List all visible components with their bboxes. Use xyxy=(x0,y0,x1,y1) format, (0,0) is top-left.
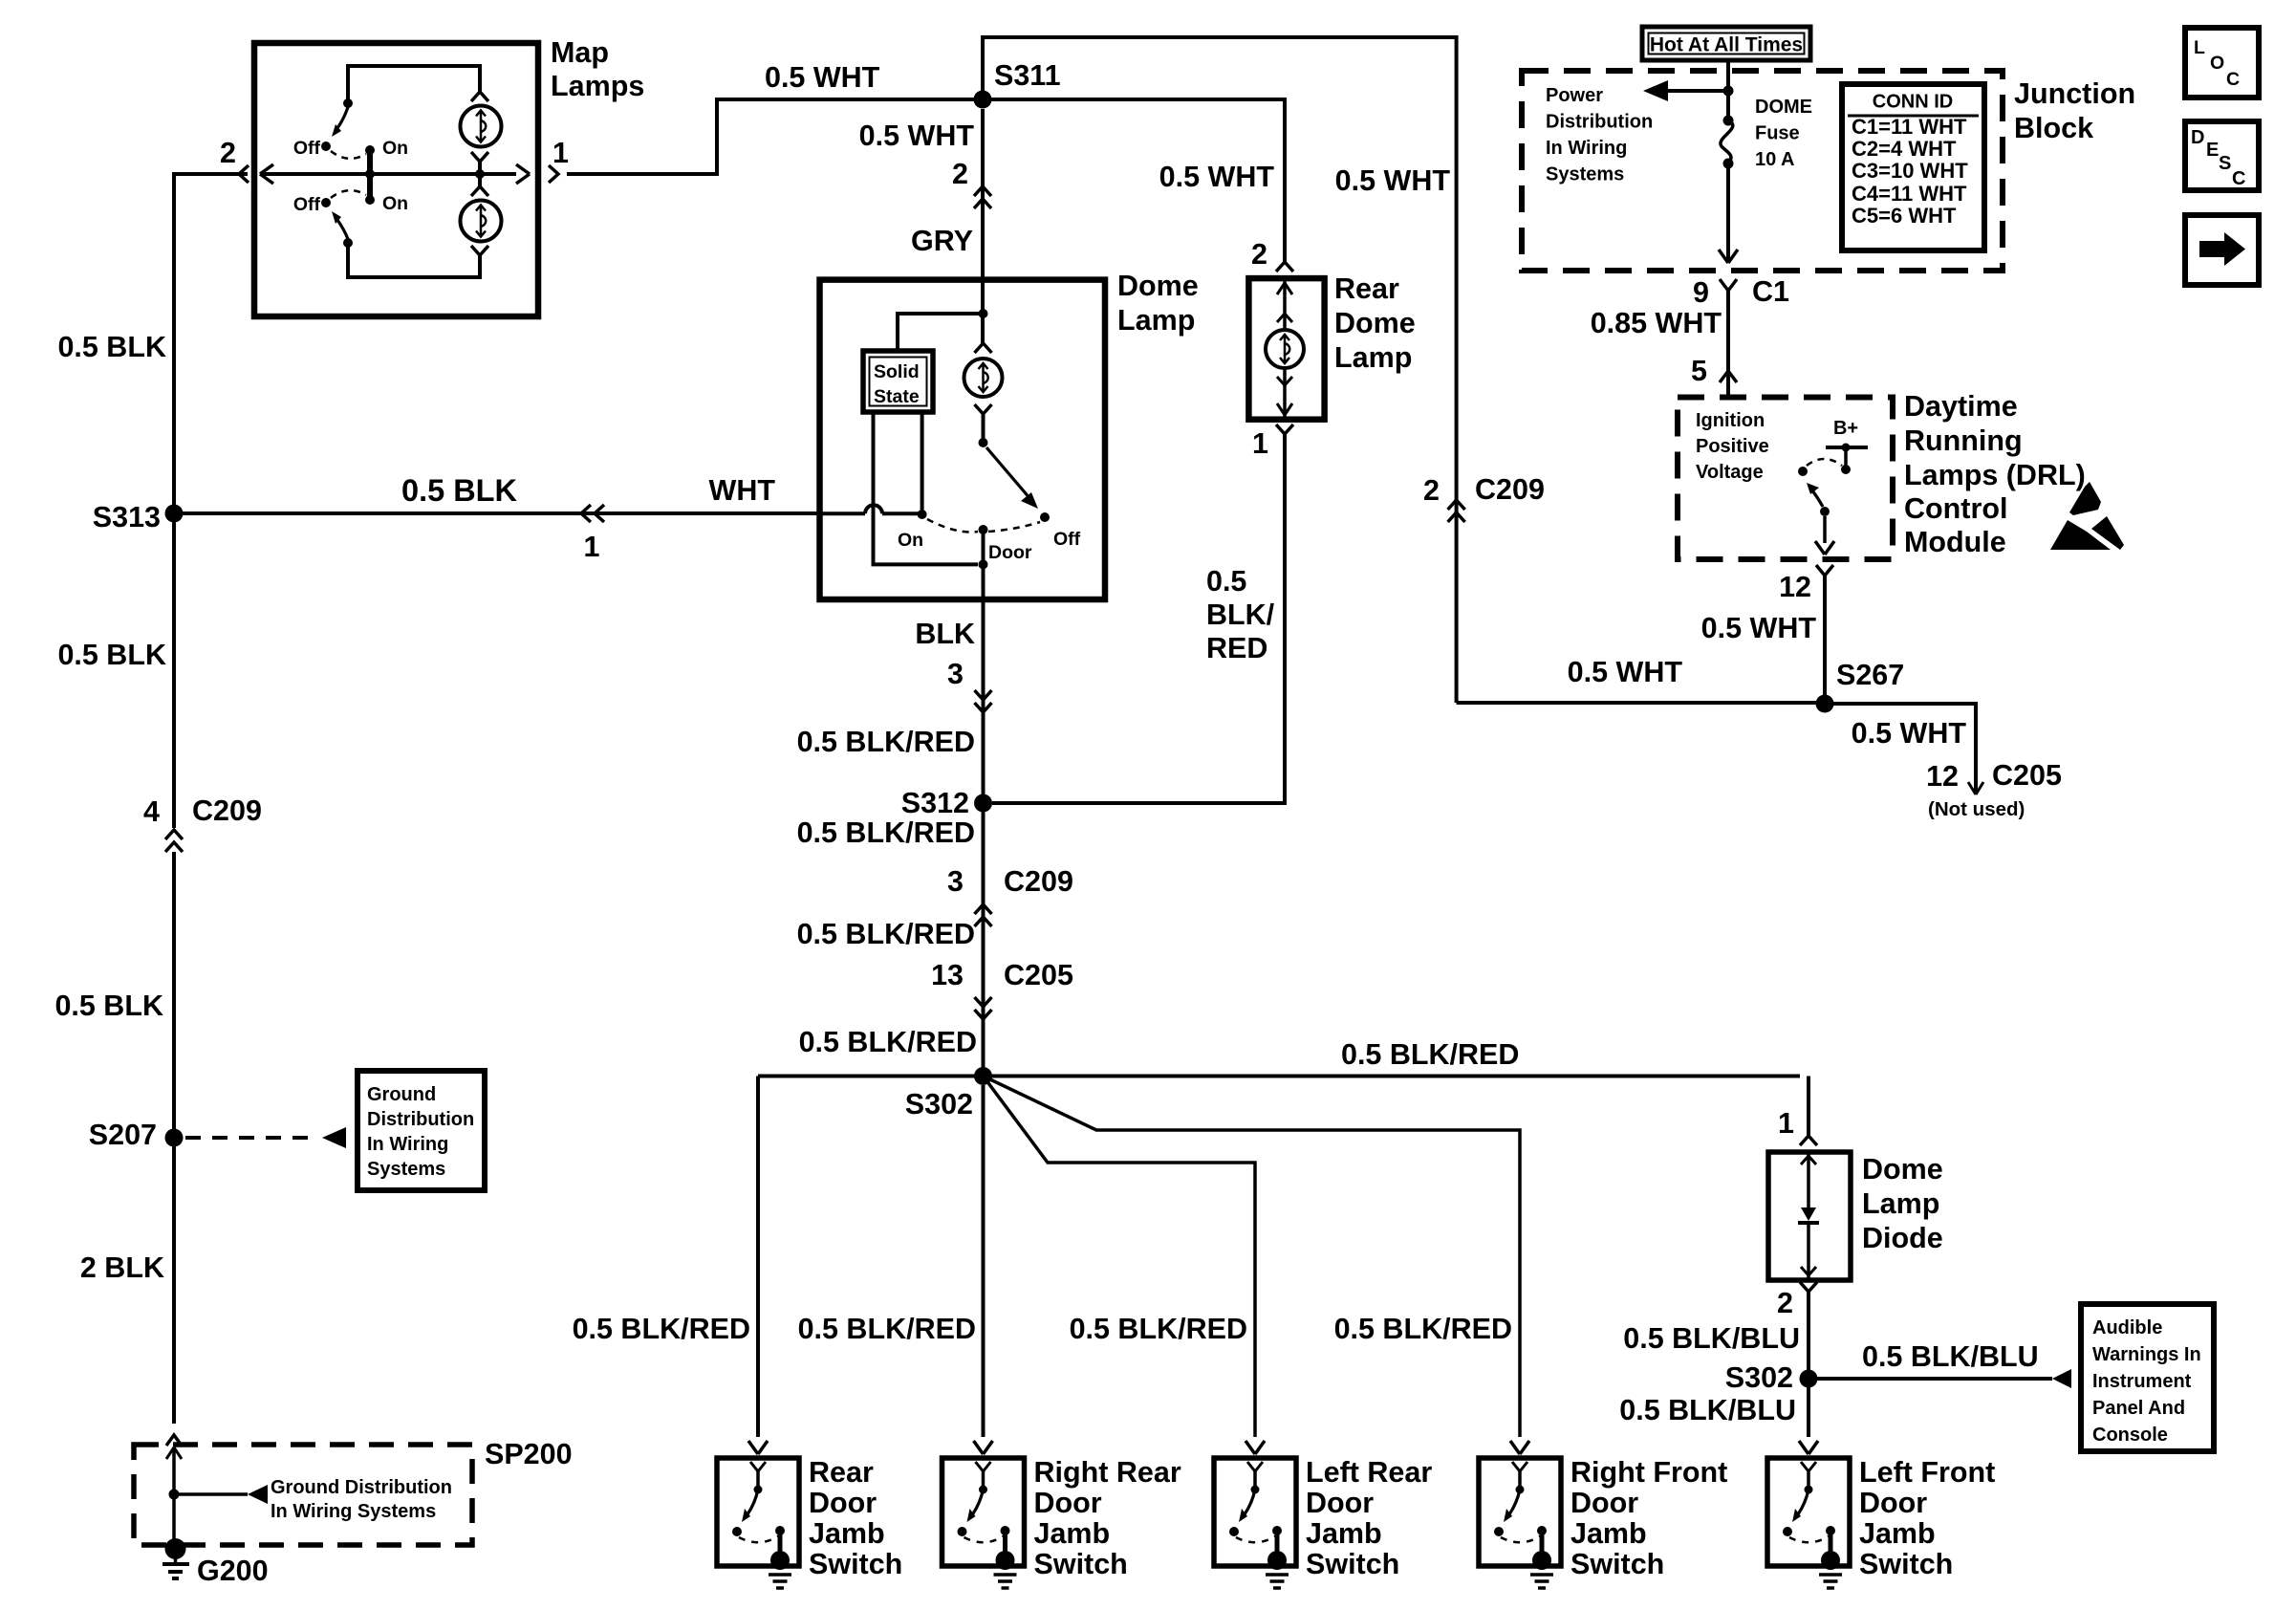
svg-text:C209: C209 xyxy=(192,794,262,827)
svg-text:Lamp: Lamp xyxy=(1862,1187,1939,1220)
svg-text:S312: S312 xyxy=(901,787,969,819)
label Junction Block xyxy=(2014,77,2135,144)
svg-text:Door: Door xyxy=(809,1487,877,1519)
hot at all times box xyxy=(1642,27,1810,60)
label Dome Lamp xyxy=(1117,270,1199,337)
DESC reference box xyxy=(2185,121,2259,190)
branch S302 to right front switch xyxy=(984,1077,1521,1438)
svg-text:C3=10 WHT: C3=10 WHT xyxy=(1852,159,1968,183)
svg-text:Ground: Ground xyxy=(367,1084,436,1105)
node S312 xyxy=(974,794,992,813)
node S207 xyxy=(165,1129,184,1147)
svg-text:0.5 BLK/BLU: 0.5 BLK/BLU xyxy=(1623,1322,1800,1355)
dome lamp switch lever xyxy=(979,438,1039,509)
svg-text:On: On xyxy=(382,138,408,159)
svg-text:RED: RED xyxy=(1206,632,1267,664)
svg-text:S313: S313 xyxy=(93,501,161,533)
svg-text:Jamb: Jamb xyxy=(1306,1517,1382,1550)
svg-text:GRY: GRY xyxy=(911,225,973,257)
svg-text:Switch: Switch xyxy=(1306,1548,1399,1580)
svg-text:0.5 BLK/BLU: 0.5 BLK/BLU xyxy=(1619,1394,1796,1426)
label Ground Distribution In Wiring Systems (SP200) xyxy=(271,1477,452,1522)
map lamps upper lamp lower chevron xyxy=(471,152,488,162)
wire rear dome pin1 down to S312 xyxy=(992,434,1285,803)
map lamps lamp junction wire xyxy=(478,162,482,186)
svg-text:Dome: Dome xyxy=(1117,270,1199,302)
wire horizontal into S267 xyxy=(1457,701,1825,705)
label Solid State xyxy=(874,361,920,407)
svg-text:Switch: Switch xyxy=(1034,1548,1128,1580)
svg-text:Audible: Audible xyxy=(2092,1317,2162,1338)
conn id rows xyxy=(1852,115,1968,228)
wire segment into rear xyxy=(748,1441,758,1454)
diode pin 1 chevron xyxy=(1800,1136,1817,1145)
svg-text:Switch: Switch xyxy=(1859,1548,1953,1580)
inline connector chevrons on dome lamp wire xyxy=(974,186,991,196)
svg-text:C205: C205 xyxy=(1992,759,2062,792)
svg-text:0.5 WHT: 0.5 WHT xyxy=(1568,656,1683,688)
svg-text:C: C xyxy=(2226,69,2240,90)
svg-text:4: 4 xyxy=(143,795,160,828)
rear dome pin 2 chevron xyxy=(1276,262,1293,272)
svg-text:Door: Door xyxy=(1306,1487,1374,1519)
rear dome pin 1 chevron xyxy=(1276,424,1293,434)
svg-text:0.5 BLK/RED: 0.5 BLK/RED xyxy=(1070,1313,1247,1345)
svg-text:2: 2 xyxy=(1777,1287,1793,1319)
WHT wire into On contact with hump xyxy=(820,505,922,513)
door jamb switch right rear xyxy=(942,1458,1025,1588)
wire C209 to S207 xyxy=(172,852,176,1129)
svg-text:CONN ID: CONN ID xyxy=(1873,92,1953,113)
svg-text:Jamb: Jamb xyxy=(1859,1517,1936,1550)
svg-text:State: State xyxy=(874,386,920,407)
svg-text:Left Rear: Left Rear xyxy=(1306,1456,1432,1489)
ground distribution in wiring systems box xyxy=(357,1071,485,1190)
svg-text:D: D xyxy=(2191,127,2204,148)
svg-text:C209: C209 xyxy=(1475,473,1545,506)
audible warnings box xyxy=(2081,1304,2214,1451)
svg-text:0.5 BLK/RED: 0.5 BLK/RED xyxy=(797,918,975,950)
map lamps upper Off contact xyxy=(321,141,331,151)
svg-text:Ignition: Ignition xyxy=(1696,410,1765,431)
svg-text:O: O xyxy=(2210,53,2224,74)
dome lamp switch common wire xyxy=(982,414,986,443)
svg-text:Rear: Rear xyxy=(809,1456,874,1489)
svg-text:Lamp: Lamp xyxy=(1334,341,1412,374)
solid state left leg xyxy=(874,412,979,564)
DRL pin 12 chevron xyxy=(1816,565,1833,576)
dome lamp dashed throw arc xyxy=(927,519,978,532)
svg-text:C: C xyxy=(2232,168,2245,189)
node S267 xyxy=(1816,695,1834,713)
svg-text:Positive: Positive xyxy=(1696,436,1769,457)
svg-text:0.5 BLK/RED: 0.5 BLK/RED xyxy=(797,816,975,849)
svg-text:S: S xyxy=(2219,153,2231,174)
svg-text:Diode: Diode xyxy=(1862,1222,1943,1254)
svg-text:Voltage: Voltage xyxy=(1696,462,1764,483)
map lamps right arrowhead xyxy=(516,164,530,174)
node S311 xyxy=(974,91,992,109)
svg-text:0.5 BLK: 0.5 BLK xyxy=(57,639,166,671)
node inside SP200 xyxy=(169,1490,180,1500)
wire left run into S267 xyxy=(1455,497,1459,703)
svg-text:Rear: Rear xyxy=(1334,272,1399,305)
wire S302 to audible warnings xyxy=(1817,1377,2052,1381)
wire S312 down xyxy=(982,812,986,1068)
svg-text:0.5 BLK/RED: 0.5 BLK/RED xyxy=(573,1313,750,1345)
chevron above SP200 xyxy=(166,1435,182,1446)
wire map lamps pin2 to left vertical xyxy=(174,174,248,505)
svg-text:In Wiring: In Wiring xyxy=(367,1134,448,1155)
arrowhead at C205 xyxy=(1968,782,1976,794)
label DOME Fuse 10 A xyxy=(1755,97,1812,170)
svg-text:C1=11 WHT: C1=11 WHT xyxy=(1852,115,1967,139)
svg-text:Switch: Switch xyxy=(809,1548,902,1580)
svg-text:C2=4 WHT: C2=4 WHT xyxy=(1852,137,1957,161)
wire S267 to C205 not used xyxy=(1833,704,1976,794)
map lamps lower dashed throw arc xyxy=(331,190,366,198)
map lamps lower switch lever xyxy=(332,211,353,248)
svg-text:Off: Off xyxy=(293,194,321,215)
wire S311 down to dome lamp xyxy=(981,109,985,280)
svg-text:Solid: Solid xyxy=(874,361,920,382)
svg-text:Jamb: Jamb xyxy=(1570,1517,1647,1550)
svg-text:Right Rear: Right Rear xyxy=(1034,1456,1181,1489)
map lamps main horizontal wire xyxy=(260,172,516,176)
svg-text:0.5 BLK: 0.5 BLK xyxy=(401,473,518,508)
svg-text:Lamp: Lamp xyxy=(1117,304,1195,337)
connector C209 left (pin 4) xyxy=(165,830,183,852)
ground G200 symbol xyxy=(162,1538,189,1578)
svg-text:Distribution: Distribution xyxy=(367,1109,474,1130)
label rear Door Jamb Switch xyxy=(809,1456,902,1580)
svg-text:BLK: BLK xyxy=(915,618,975,650)
map lamps switch post xyxy=(365,145,375,205)
svg-text:0.5 BLK: 0.5 BLK xyxy=(57,331,166,363)
svg-text:Block: Block xyxy=(2014,112,2093,144)
svg-text:Warnings In: Warnings In xyxy=(2092,1344,2201,1365)
DRL control module dashed box xyxy=(1678,398,1893,560)
label right rear Door Jamb Switch xyxy=(1034,1456,1181,1580)
svg-text:2: 2 xyxy=(1423,474,1440,507)
svg-text:2: 2 xyxy=(1251,238,1267,271)
svg-text:13: 13 xyxy=(931,959,964,991)
svg-text:WHT: WHT xyxy=(709,474,776,507)
B+ contact xyxy=(1826,444,1868,475)
svg-text:Switch: Switch xyxy=(1570,1548,1664,1580)
DRL pin 5 chevron xyxy=(1720,371,1737,382)
svg-text:S311: S311 xyxy=(994,59,1061,92)
svg-text:0.5 BLK/RED: 0.5 BLK/RED xyxy=(1341,1038,1519,1071)
wire segment into right front xyxy=(1510,1441,1520,1454)
fuse DOME 10A xyxy=(1721,116,1734,169)
CONN ID table xyxy=(1842,84,1984,250)
rear dome lamp box xyxy=(1248,278,1324,420)
svg-text:S302: S302 xyxy=(1725,1361,1793,1394)
svg-text:9: 9 xyxy=(1693,276,1709,309)
map lamps left arrowhead xyxy=(260,164,273,174)
connector C209 right column xyxy=(1448,500,1465,510)
wire map lamps pin1 to S311 xyxy=(567,99,974,174)
svg-text:1: 1 xyxy=(1252,427,1268,460)
svg-text:Lamps (DRL): Lamps (DRL) xyxy=(1904,459,2086,491)
map lamps pin 2 chevron xyxy=(239,165,249,183)
label Daytime Running Lamps (DRL) Control Module xyxy=(1904,390,2086,558)
svg-text:0.5: 0.5 xyxy=(1206,565,1246,598)
wire segment into right rear xyxy=(974,1441,984,1454)
rear dome lamp internals xyxy=(1277,278,1292,330)
wire segment into left front xyxy=(1799,1441,1809,1454)
svg-text:In Wiring: In Wiring xyxy=(1546,138,1627,159)
svg-text:0.5 WHT: 0.5 WHT xyxy=(1701,612,1817,644)
label Dome Lamp Diode xyxy=(1862,1153,1943,1254)
svg-text:E: E xyxy=(2206,140,2219,161)
svg-text:0.85 WHT: 0.85 WHT xyxy=(1591,307,1722,339)
svg-text:0.5 WHT: 0.5 WHT xyxy=(1159,161,1275,193)
svg-text:0.5 BLK/RED: 0.5 BLK/RED xyxy=(797,726,975,758)
junction block dashed box xyxy=(1522,71,2003,271)
wire to rear door jamb switch xyxy=(756,1077,760,1438)
svg-text:0.5 BLK/RED: 0.5 BLK/RED xyxy=(798,1313,976,1345)
connector C209 chevrons xyxy=(975,904,992,914)
svg-text:1: 1 xyxy=(1778,1107,1794,1140)
map lamps lower Off contact xyxy=(321,198,331,207)
wire S302 to right rear switch xyxy=(982,1085,986,1437)
dashed reference wire from S207 xyxy=(185,1136,317,1140)
svg-text:2: 2 xyxy=(220,137,236,169)
svg-text:12: 12 xyxy=(1779,571,1811,603)
node S302 lower xyxy=(1800,1370,1818,1388)
solid state box xyxy=(863,351,933,412)
map lamps lower lamp branch wire xyxy=(348,247,480,277)
wire segment into left rear xyxy=(1245,1441,1255,1454)
DRL dashed arc xyxy=(1807,459,1842,466)
dome lamp internal top junction xyxy=(898,280,988,351)
wire S313 to dome lamp switch (WHT) xyxy=(174,511,820,515)
wire into SP200 with up arrow xyxy=(172,1447,176,1544)
dome lamp bulb upper chevron xyxy=(975,343,992,353)
svg-text:Ground Distribution: Ground Distribution xyxy=(271,1477,452,1498)
node S313 xyxy=(165,505,184,523)
svg-text:Map: Map xyxy=(551,36,609,69)
svg-text:3: 3 xyxy=(947,865,964,898)
map lamps lower lamp bottom chevron xyxy=(471,246,488,255)
main door jamb feed wire xyxy=(758,1075,1800,1078)
inline connector chevrons on WHT wire xyxy=(581,505,591,522)
wire S311 up and across top to right column xyxy=(983,37,1457,497)
diode symbol xyxy=(1798,1152,1819,1280)
door jamb switch left front xyxy=(1767,1458,1850,1588)
svg-text:Instrument: Instrument xyxy=(2092,1371,2192,1392)
svg-text:SP200: SP200 xyxy=(485,1438,573,1470)
dome lamp bulb xyxy=(964,359,1003,397)
svg-text:Systems: Systems xyxy=(367,1159,445,1180)
LOC reference box xyxy=(2185,28,2259,98)
svg-text:C5=6 WHT: C5=6 WHT xyxy=(1852,204,1957,228)
wire dome lamp to S312 xyxy=(982,599,986,794)
svg-text:Console: Console xyxy=(2092,1425,2168,1446)
DRL output wire with arrow xyxy=(1815,516,1834,555)
label Audible Warnings In Instrument Panel And Console xyxy=(2092,1317,2201,1446)
svg-text:Module: Module xyxy=(1904,526,2006,558)
svg-text:1: 1 xyxy=(552,137,569,169)
svg-text:Door: Door xyxy=(1859,1487,1927,1519)
diode pin 2 chevron xyxy=(1800,1282,1817,1292)
svg-text:5: 5 xyxy=(1691,355,1707,387)
door jamb switch rear xyxy=(717,1458,799,1588)
wire diode to S302 splice xyxy=(1807,1292,1810,1437)
reference arrow inside SP200 xyxy=(174,1485,268,1504)
svg-text:S302: S302 xyxy=(905,1088,973,1120)
rear dome bulb xyxy=(1266,330,1304,368)
label Power Distribution In Wiring Systems xyxy=(1546,85,1653,185)
arrowhead to ground distribution note xyxy=(322,1127,346,1148)
label 0.5 BLK/ RED stacked xyxy=(1206,565,1275,664)
svg-text:S207: S207 xyxy=(89,1119,157,1151)
svg-text:C205: C205 xyxy=(1004,959,1073,991)
wire DRL pin12 to S267 xyxy=(1823,574,1827,704)
label Map Lamps xyxy=(551,36,644,102)
map lamps lower lamp xyxy=(461,201,502,242)
svg-text:B+: B+ xyxy=(1833,418,1858,439)
svg-text:Junction: Junction xyxy=(2014,77,2135,110)
DRL switch lever xyxy=(1807,483,1830,516)
label left front Door Jamb Switch xyxy=(1859,1456,1995,1580)
svg-text:Door: Door xyxy=(1034,1487,1102,1519)
svg-text:L: L xyxy=(2194,37,2205,58)
svg-text:Fuse: Fuse xyxy=(1755,123,1800,144)
svg-text:0.5 BLK/RED: 0.5 BLK/RED xyxy=(799,1026,977,1058)
svg-text:C209: C209 xyxy=(1004,865,1073,898)
svg-text:Power: Power xyxy=(1546,85,1603,106)
wire main feed to diode xyxy=(1807,1077,1810,1137)
connector chevrons below dome lamp xyxy=(975,703,992,712)
svg-text:G200: G200 xyxy=(197,1555,269,1587)
map lamps upper switch lever xyxy=(332,98,353,137)
svg-text:In Wiring Systems: In Wiring Systems xyxy=(271,1501,436,1522)
svg-text:Distribution: Distribution xyxy=(1546,112,1653,133)
svg-text:(Not used): (Not used) xyxy=(1928,798,2025,820)
map lamps component box xyxy=(254,43,538,316)
map lamps lower lamp upper chevron xyxy=(471,186,488,196)
dome lamp door wire down xyxy=(979,533,988,599)
dome lamp diode box xyxy=(1768,1152,1851,1280)
dome lamp component box xyxy=(820,280,1106,599)
label Rear Dome Lamp xyxy=(1334,272,1416,374)
svg-text:0.5 WHT: 0.5 WHT xyxy=(859,120,975,152)
branch S302 to left rear switch xyxy=(984,1077,1256,1438)
svg-text:0.5 WHT: 0.5 WHT xyxy=(1335,164,1451,197)
svg-text:Lamps: Lamps xyxy=(551,70,644,102)
label left rear Door Jamb Switch xyxy=(1306,1456,1432,1580)
svg-text:0.5 BLK/BLU: 0.5 BLK/BLU xyxy=(1862,1340,2039,1373)
wire S207 to SP200 xyxy=(172,1146,176,1424)
door jamb switch left rear xyxy=(1214,1458,1296,1588)
svg-text:Door: Door xyxy=(988,542,1032,563)
ESD sensitive device symbol xyxy=(2050,482,2124,550)
svg-text:Jamb: Jamb xyxy=(809,1517,885,1550)
svg-text:On: On xyxy=(898,530,923,551)
connector C205 chevrons xyxy=(975,1010,992,1019)
svg-text:Dome: Dome xyxy=(1334,307,1416,339)
svg-text:Hot At All Times: Hot At All Times xyxy=(1650,34,1803,56)
wire fuse down to C1 xyxy=(1726,163,1730,263)
svg-text:DOME: DOME xyxy=(1755,97,1812,118)
svg-text:Daytime: Daytime xyxy=(1904,390,2018,423)
arrowhead at junction block exit xyxy=(1719,250,1728,263)
svg-text:Dome: Dome xyxy=(1862,1153,1943,1186)
svg-text:BLK/: BLK/ xyxy=(1206,598,1275,631)
dome lamp Off contact xyxy=(1040,512,1050,522)
svg-text:2: 2 xyxy=(952,158,968,190)
svg-text:Systems: Systems xyxy=(1546,164,1624,185)
splice SP200 dashed box xyxy=(134,1445,472,1545)
map lamps upper lamp connector chevron xyxy=(471,92,488,101)
svg-text:Door: Door xyxy=(1570,1487,1638,1519)
map lamps upper dashed throw arc xyxy=(331,151,366,159)
svg-text:C4=11 WHT: C4=11 WHT xyxy=(1852,182,1967,206)
DRL relay left contact xyxy=(1798,467,1808,476)
svg-text:10 A: 10 A xyxy=(1755,149,1795,170)
svg-text:0.5 WHT: 0.5 WHT xyxy=(1852,717,1967,750)
svg-text:S267: S267 xyxy=(1836,659,1904,691)
svg-text:Left Front: Left Front xyxy=(1859,1456,1995,1489)
node S302 xyxy=(974,1067,992,1085)
junction node with arrow xyxy=(1643,80,1734,101)
rear dome lower internals xyxy=(1277,368,1292,417)
dome lamp bulb lower chevron xyxy=(975,404,992,414)
svg-text:Right Front: Right Front xyxy=(1570,1456,1727,1489)
dome lamp Door contact xyxy=(979,525,988,534)
svg-text:Jamb: Jamb xyxy=(1034,1517,1111,1550)
wire hot to fuse xyxy=(1726,60,1730,120)
wire C1 to DRL xyxy=(1726,291,1730,382)
label right front Door Jamb Switch xyxy=(1570,1456,1727,1580)
arrow reference box xyxy=(2185,215,2259,285)
svg-text:2 BLK: 2 BLK xyxy=(80,1251,164,1284)
wire S313 down to C209 xyxy=(172,522,176,828)
svg-text:3: 3 xyxy=(947,658,964,690)
door jamb switch right front xyxy=(1479,1458,1561,1588)
svg-text:Off: Off xyxy=(1053,529,1081,550)
svg-text:On: On xyxy=(382,193,408,214)
map lamps upper lamp branch wire xyxy=(348,66,480,99)
arrowhead to audible warnings xyxy=(2052,1369,2071,1388)
map lamps upper lamp xyxy=(461,106,502,147)
dome lamp On contact xyxy=(918,510,927,519)
svg-text:12: 12 xyxy=(1926,760,1959,793)
svg-text:0.5 BLK: 0.5 BLK xyxy=(54,990,163,1022)
map lamps pin 1 chevron xyxy=(549,165,558,183)
solid state right leg xyxy=(921,412,924,511)
svg-text:1: 1 xyxy=(584,531,600,563)
svg-text:Running: Running xyxy=(1904,424,2023,457)
svg-text:0.5 BLK/RED: 0.5 BLK/RED xyxy=(1334,1313,1512,1345)
svg-text:Control: Control xyxy=(1904,492,2007,525)
svg-text:0.5 WHT: 0.5 WHT xyxy=(765,61,880,94)
connector C1 chevron xyxy=(1720,279,1737,291)
wire S311 right to rear dome lamp column xyxy=(991,99,1285,262)
svg-text:C1: C1 xyxy=(1752,275,1789,308)
svg-text:Off: Off xyxy=(293,138,321,159)
label Ground Distribution In Wiring Systems xyxy=(367,1084,474,1180)
label Ignition Positive Voltage xyxy=(1696,410,1769,483)
svg-text:Panel And: Panel And xyxy=(2092,1398,2185,1419)
